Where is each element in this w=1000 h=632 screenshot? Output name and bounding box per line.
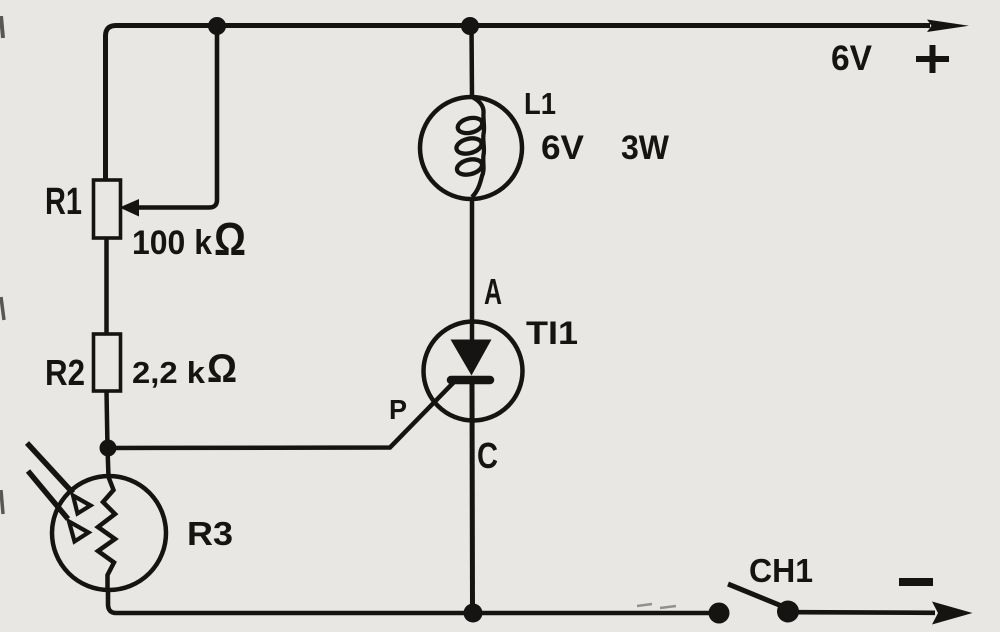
wire: top bus down to lamp L1 [469, 26, 474, 97]
arrowhead of light arrow 2 (open) [69, 522, 89, 542]
arrowhead: top right (+ rail) [927, 20, 969, 33]
lamp L1 bulb (circle) [420, 97, 522, 199]
node: junction cathode with bottom bus [464, 604, 483, 623]
thyristor cathode bar [451, 376, 490, 385]
switch CH1 lever (open) [728, 584, 789, 609]
wire: wiper return from top bus down and left to R1 arrow [137, 30, 217, 208]
switch CH1 right contact dot [777, 601, 799, 623]
svg-text:TI1: TI1 [526, 315, 578, 351]
wire: lamp L1 down to thyristor anode [470, 198, 475, 341]
svg-text:6V: 6V [541, 129, 584, 167]
node: junction R2 / R3 / gate wire [100, 440, 117, 457]
svg-text:100 k: 100 k [132, 224, 212, 262]
light arrow 2 into R3 [28, 471, 68, 519]
arrowhead: potentiometer wiper [120, 199, 140, 217]
arrowhead of light arrow 1 (open) [73, 496, 91, 514]
wire: R3 to bottom bus with corner [108, 590, 710, 613]
label + (positive terminal) [916, 45, 949, 73]
svg-text:3W: 3W [621, 129, 670, 167]
wire: top bus (6V +) with left corner down to R1 [106, 26, 931, 182]
svg-text:P: P [389, 394, 407, 425]
svg-text:2,2 k: 2,2 k [132, 355, 206, 390]
svg-text:L1: L1 [524, 86, 556, 121]
svg-text:A: A [484, 271, 502, 312]
wire: R2 down to gate junction node [107, 391, 108, 448]
potentiometer R1 body [94, 180, 121, 238]
wire: gate wire from junction to thyristor gate (P) [108, 381, 455, 448]
thyristor TI1 body (circle) [424, 322, 523, 421]
node: junction of top bus and lamp branch [461, 17, 479, 35]
lamp L1 filament coil [472, 97, 484, 197]
wire: bottom bus right segment to arrow [798, 610, 935, 615]
svg-text:Ω: Ω [207, 347, 237, 391]
label - (negative terminal) [899, 578, 933, 586]
svg-text:R2: R2 [45, 352, 85, 393]
svg-text:C: C [477, 435, 498, 476]
svg-text:CH1: CH1 [749, 552, 813, 589]
svg-text:R1: R1 [45, 181, 82, 223]
light arrow 1 into R3 [27, 443, 73, 493]
photoresistor R3 body (circle) [52, 476, 166, 590]
svg-text:Ω: Ω [214, 213, 246, 265]
node: junction of wiper return with top bus [208, 17, 226, 35]
wire: thyristor cathode down to bottom bus [470, 384, 476, 613]
resistive zigzag element of R3 [98, 477, 115, 590]
wire: junction down into R3 [108, 448, 109, 477]
switch CH1 left contact dot [709, 603, 730, 624]
thyristor anode triangle [451, 340, 492, 376]
svg-text:R3: R3 [187, 515, 233, 552]
wire: R1 to R2 [104, 238, 109, 334]
arrowhead: bottom right (- rail) [932, 602, 973, 625]
svg-text:6V: 6V [831, 39, 873, 78]
resistor R2 body [94, 334, 121, 391]
